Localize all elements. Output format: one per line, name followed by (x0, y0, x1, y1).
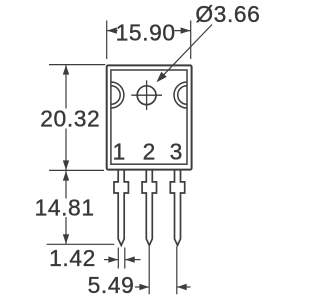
dimension 20.32 extension line bottom (49, 169, 104, 171)
package body outer outline (107, 65, 192, 169)
svg-text:1: 1 (113, 139, 126, 165)
left side notch inner arc (111, 86, 120, 105)
dimension 15.90 extension line right (190, 21, 192, 60)
lead 3 (170, 170, 184, 246)
dimension 14.81 extension line bottom (47, 243, 115, 245)
dimension 20.32 arrow down (63, 160, 69, 170)
mounting hole crosshair horizontal (131, 94, 162, 96)
dimension 20.32 line top segment (65, 65, 67, 109)
svg-text:15.90: 15.90 (116, 20, 176, 46)
mounting hole crosshair vertical (146, 80, 148, 110)
dimension 5.49 line left segment (135, 286, 149, 288)
dimension 15.90 arrow left (107, 27, 117, 33)
package body inner outline (111, 70, 187, 164)
svg-text:14.81: 14.81 (35, 195, 95, 221)
dimension 1.42 line right segment (125, 259, 140, 261)
pin 2 extension line (148, 246, 150, 294)
svg-text:3: 3 (170, 139, 183, 165)
svg-text:20.32: 20.32 (40, 105, 100, 131)
dimension 5.49 arrow left (139, 284, 149, 290)
svg-text:2: 2 (143, 139, 156, 165)
dimension 1.42 arrow right (125, 256, 135, 262)
dimension 5.49 arrow right (177, 284, 187, 290)
dimension 15.90 arrow right (181, 27, 191, 33)
pin 3 extension line (176, 246, 178, 294)
dimension 1.42 line left segment (104, 259, 118, 261)
dimension 5.49 line right segment (177, 286, 190, 288)
left side notch outer arc (111, 82, 124, 108)
svg-text:5.49: 5.49 (88, 272, 135, 298)
dimension 1.42 arrow left (108, 256, 118, 262)
dimension 14.81 arrow up (63, 171, 69, 181)
dimension 20.32 line bottom segment (65, 129, 67, 171)
dimension 15.90 line right segment (175, 30, 191, 32)
svg-text:1.42: 1.42 (49, 245, 96, 271)
dimension 14.81 arrow down (63, 234, 69, 244)
dimension 20.32 extension line top (49, 64, 105, 66)
dimension 1.42 extension tick left (117, 248, 119, 269)
lead 1 (114, 170, 128, 246)
right side notch inner arc (178, 86, 187, 105)
lead 2 (142, 170, 156, 246)
svg-text:Ø3.66: Ø3.66 (195, 1, 260, 27)
dimension 20.32 arrow up (63, 65, 69, 75)
mounting hole circle (137, 86, 156, 105)
hole leader arrowhead (157, 72, 167, 83)
dimension 15.90 line left segment (107, 30, 118, 32)
dimension 1.42 extension tick right (124, 248, 126, 269)
hole leader line (159, 25, 213, 81)
dimension 14.81 line top segment (65, 171, 67, 199)
dimension 14.81 line bottom segment (65, 217, 67, 244)
dimension 15.90 extension line left (106, 21, 108, 60)
right side notch outer arc (174, 82, 187, 108)
